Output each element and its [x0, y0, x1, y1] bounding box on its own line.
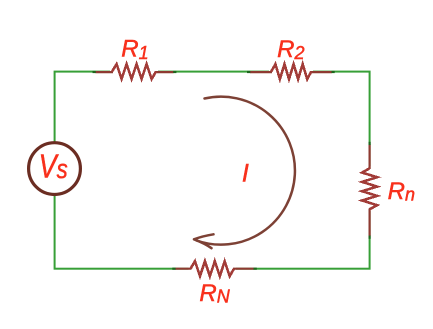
svg-text:Rn: Rn [388, 178, 415, 205]
svg-text:RN: RN [199, 280, 230, 307]
svg-text:I: I [242, 160, 249, 188]
svg-text:R2: R2 [277, 36, 304, 63]
svg-text:R1: R1 [121, 36, 148, 63]
svg-text:Vs: Vs [39, 149, 68, 185]
